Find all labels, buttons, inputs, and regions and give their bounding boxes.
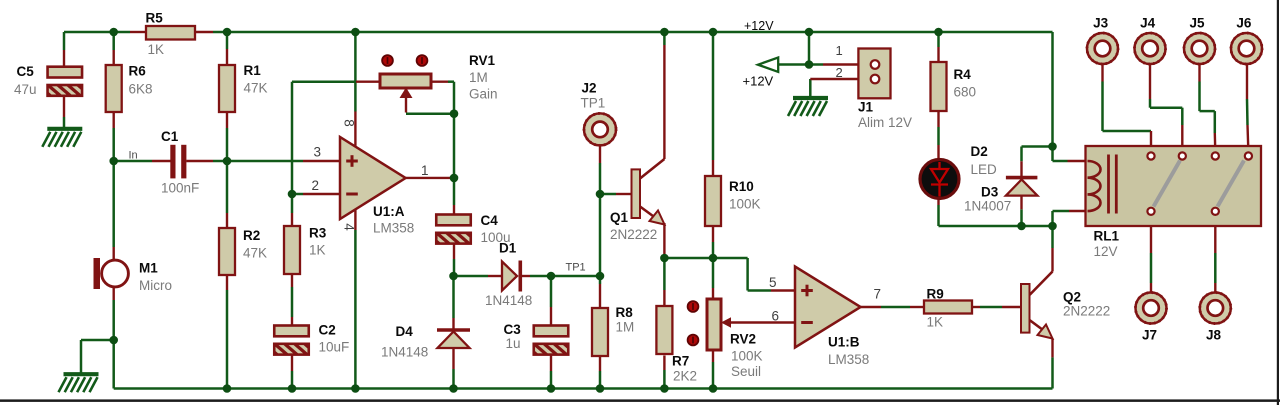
svg-text:J3: J3 [1093,16,1109,31]
svg-text:R10: R10 [729,179,754,194]
svg-text:D3: D3 [981,185,999,200]
svg-text:5: 5 [769,275,777,290]
svg-text:100nF: 100nF [161,181,199,196]
svg-text:10uF: 10uF [319,340,350,355]
svg-text:U1:A: U1:A [373,204,405,219]
svg-text:R2: R2 [243,228,260,243]
svg-text:3: 3 [314,145,322,160]
svg-text:2: 2 [836,65,843,80]
svg-text:LM358: LM358 [828,352,869,367]
svg-text:R6: R6 [129,64,147,79]
svg-text:C3: C3 [504,322,522,337]
svg-text:RL1: RL1 [1094,229,1120,244]
svg-text:2N2222: 2N2222 [1063,304,1110,319]
svg-text:7: 7 [874,287,882,302]
svg-text:J7: J7 [1142,328,1157,343]
svg-text:RV1: RV1 [469,53,496,68]
svg-text:Q1: Q1 [610,210,629,225]
svg-text:J4: J4 [1140,16,1156,31]
svg-text:47K: 47K [244,81,268,96]
svg-text:2N2222: 2N2222 [610,227,657,242]
svg-text:12V: 12V [1094,244,1118,259]
svg-text:1N4007: 1N4007 [964,199,1011,214]
svg-text:1: 1 [421,163,429,178]
svg-text:LM358: LM358 [373,221,414,236]
svg-text:LED: LED [971,162,998,177]
svg-text:R4: R4 [954,67,972,82]
svg-text:4: 4 [342,223,357,231]
svg-text:1M: 1M [469,70,488,85]
svg-text:J8: J8 [1206,328,1222,343]
svg-text:C1: C1 [161,129,179,144]
svg-text:R9: R9 [927,287,944,302]
svg-text:1: 1 [836,43,843,58]
svg-text:C5: C5 [17,64,35,79]
svg-text:1K: 1K [148,42,165,57]
svg-text:47u: 47u [14,82,37,97]
svg-text:+12V: +12V [743,74,774,89]
svg-text:J2: J2 [582,81,597,96]
svg-text:R1: R1 [244,63,262,78]
svg-text:R8: R8 [616,305,634,320]
svg-text:680: 680 [954,85,977,100]
svg-text:C2: C2 [319,323,336,338]
svg-text:TP1: TP1 [566,262,586,274]
svg-text:Micro: Micro [139,278,172,293]
svg-text:J5: J5 [1189,16,1205,31]
svg-text:R3: R3 [309,226,327,241]
svg-text:J6: J6 [1236,16,1252,31]
svg-text:1N4148: 1N4148 [381,345,428,360]
svg-text:6K8: 6K8 [129,82,153,97]
svg-text:1K: 1K [309,243,326,258]
svg-text:100K: 100K [729,197,761,212]
svg-text:1M: 1M [616,320,635,335]
svg-text:RV2: RV2 [730,332,756,347]
svg-text:47K: 47K [243,246,267,261]
svg-text:Gain: Gain [469,87,498,102]
svg-text:+12V: +12V [744,19,774,33]
svg-text:D2: D2 [971,144,988,159]
svg-text:Alim 12V: Alim 12V [858,115,912,130]
svg-text:1u: 1u [506,336,521,351]
svg-text:8: 8 [342,119,357,127]
svg-text:TP1: TP1 [581,96,606,111]
svg-text:2K2: 2K2 [673,369,697,384]
svg-text:1N4148: 1N4148 [485,293,532,308]
svg-text:Seuil: Seuil [731,364,761,379]
svg-text:In: In [129,149,138,161]
svg-text:1K: 1K [927,315,944,330]
svg-text:C4: C4 [481,213,499,228]
svg-text:R5: R5 [146,11,164,26]
svg-text:2: 2 [312,178,320,193]
svg-text:100K: 100K [731,349,763,364]
svg-text:M1: M1 [139,261,158,276]
svg-text:Q2: Q2 [1063,290,1081,305]
svg-text:D1: D1 [499,241,517,256]
svg-text:U1:B: U1:B [828,335,860,350]
svg-text:J1: J1 [858,100,874,115]
svg-text:D4: D4 [396,324,414,339]
svg-text:R7: R7 [672,354,689,369]
svg-text:6: 6 [772,309,780,324]
